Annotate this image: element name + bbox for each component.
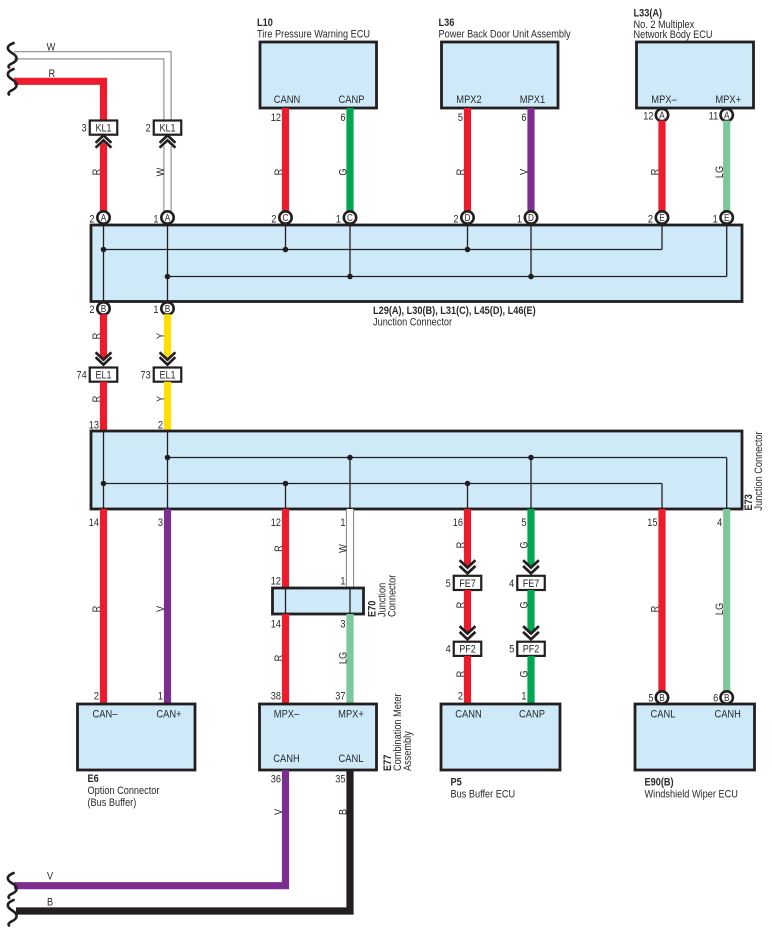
svg-text:6: 6 [521,112,526,124]
svg-text:W: W [47,42,56,54]
wire R E73-12 to E70 [282,509,289,588]
junction dot pin1 upper bus E73 [347,455,353,461]
wire R E73-15 to E90 CANL [658,509,665,692]
svg-text:(Bus Buffer): (Bus Buffer) [88,797,137,809]
connector KL1 pin 3 [82,121,118,135]
connector circle D pin 1 box1 top [525,211,537,223]
junction dot A1 lower bus [165,274,171,280]
svg-text:2: 2 [89,214,94,226]
svg-text:5: 5 [458,112,463,124]
wire break R [8,69,17,95]
svg-text:G: G [519,601,531,608]
svg-text:PF2: PF2 [523,644,540,656]
svg-text:A: A [724,110,730,121]
svg-text:5: 5 [648,693,653,705]
wire R CANN L10 to C2 [282,108,289,212]
svg-text:W: W [155,167,167,176]
svg-text:Y: Y [155,396,167,402]
svg-text:2: 2 [89,304,94,316]
wire LG E73-4 to E90 CANH [723,509,730,692]
connector EL1 pin 73 [141,368,182,382]
svg-text:Windshield Wiper ECU: Windshield Wiper ECU [645,789,738,801]
svg-text:36: 36 [271,774,281,786]
svg-text:E6: E6 [88,773,100,785]
junction dot pin5 upper bus E73 [528,455,534,461]
svg-text:1: 1 [517,214,522,226]
svg-text:MPX–: MPX– [274,709,300,721]
wire G CANP L10 to C1 [346,108,353,212]
svg-text:1: 1 [713,214,718,226]
svg-text:4: 4 [717,517,722,529]
ECU E90(B) Windshield Wiper ECU [635,704,755,770]
svg-text:Junction Connector: Junction Connector [753,431,765,511]
svg-text:R: R [650,606,662,613]
svg-text:L10: L10 [257,17,273,29]
connector chevron FE7 right [523,560,539,573]
connector chevron KL1 right [160,135,176,147]
white wire col A1 below KL1 [164,146,171,212]
connector circle A pin 12 L33 [656,109,668,121]
svg-text:2: 2 [94,691,99,703]
svg-text:CANP: CANP [339,94,365,106]
svg-text:R: R [455,169,467,176]
junction dot pin12 lower bus E73 [283,481,289,487]
connector circle C pin 2 box1 top [279,211,291,223]
svg-text:Tire Pressure Warning ECU: Tire Pressure Warning ECU [257,29,370,41]
svg-text:5: 5 [509,644,514,656]
svg-text:A: A [101,212,107,223]
internal lines E70 [286,588,351,614]
connector PF2 pin 5 [509,642,545,656]
wire R PF2 to P5 CANN [464,656,471,704]
svg-text:LG: LG [714,603,726,615]
connector FE7 pin 5 [446,576,482,590]
svg-text:1: 1 [158,691,163,703]
junction dot C1 lower bus [347,274,353,280]
svg-text:C: C [283,212,289,223]
svg-text:Assembly: Assembly [402,730,414,771]
svg-text:73: 73 [141,370,151,382]
svg-text:PF2: PF2 [459,644,476,656]
wire R B2 to EL1 [100,314,107,360]
svg-text:MPX2: MPX2 [456,94,482,106]
connector circle E pin 1 box1 top [721,211,733,223]
svg-text:2: 2 [458,691,463,703]
wire break V [8,873,17,898]
svg-text:Power Back Door Unit Assembly: Power Back Door Unit Assembly [439,29,572,41]
internal bus lines box1 [104,225,727,302]
svg-text:14: 14 [89,517,99,529]
svg-text:FE7: FE7 [523,578,540,590]
connector circle E pin 2 box1 top [656,211,668,223]
junction dot pin14 lower bus E73 [101,481,107,487]
junction dot C2 upper bus [283,247,289,253]
svg-text:R: R [91,169,103,176]
svg-text:MPX–: MPX– [651,94,677,106]
connector PF2 pin 4 [446,642,482,656]
connector circle A pin 11 L33 [721,109,733,121]
svg-text:R: R [455,542,467,549]
wire R col A2 below KL1 [100,142,107,212]
svg-text:C: C [347,212,353,223]
connector circle B pin 5 E90 [656,691,668,703]
wire R MPX2 L36 to D2 [464,108,471,212]
svg-text:A: A [165,212,171,223]
svg-text:Junction Connector: Junction Connector [373,317,453,329]
wire Y EL1 to E73 pin 2 [164,382,171,431]
svg-text:Network Body ECU: Network Body ECU [634,29,713,41]
svg-text:2: 2 [453,214,458,226]
wire G FE7 to PF2 right [527,590,534,634]
junction dot D1 lower bus [528,274,534,280]
connector chevron PF2 left [460,626,476,639]
svg-text:R: R [91,396,103,403]
svg-text:2: 2 [648,214,653,226]
svg-text:A: A [659,110,665,121]
svg-text:G: G [519,670,531,677]
svg-text:6: 6 [713,693,718,705]
wire R MPX- L33 to E2 [658,121,665,212]
svg-text:5: 5 [521,517,526,529]
svg-text:EL1: EL1 [159,370,175,382]
wire R feed from left (red) [14,81,104,120]
svg-text:CANH: CANH [714,709,740,721]
svg-text:35: 35 [335,774,345,786]
svg-text:1: 1 [336,214,341,226]
svg-text:B: B [659,692,664,703]
internal bus lines E73 [104,431,727,509]
wire G PF2 to P5 CANP [527,656,534,704]
svg-text:1: 1 [340,576,345,588]
wire break B [8,900,17,926]
svg-text:15: 15 [647,517,657,529]
white wire E73-1 to E70 [346,509,353,588]
svg-text:R: R [455,671,467,678]
wire V E73-3 to E6 CAN+ [164,509,171,704]
junction connector E70 [273,588,364,614]
svg-text:LG: LG [338,652,350,664]
svg-text:CANL: CANL [651,709,676,721]
svg-text:R: R [455,602,467,609]
svg-text:38: 38 [271,691,281,703]
svg-text:MPX+: MPX+ [715,94,741,106]
connector chevron FE7 left [460,560,476,573]
connector circle A pin 2 box1 top [97,211,109,223]
wire R E73-16 to FE7 [464,509,471,568]
svg-text:1: 1 [153,304,158,316]
ECU L36 Power Back Door Unit Assembly [442,42,559,108]
wire LG MPX+ L33 to E1 [723,121,730,212]
svg-text:B: B [338,809,350,815]
svg-text:CANH: CANH [273,753,299,765]
svg-text:12: 12 [271,517,281,529]
svg-text:EL1: EL1 [95,370,111,382]
svg-text:L36: L36 [439,17,455,29]
svg-text:L29(A), L30(B), L31(C), L45(D): L29(A), L30(B), L31(C), L45(D), L46(E) [373,305,536,317]
svg-text:G: G [338,168,350,175]
wire R FE7 to PF2 left [464,590,471,634]
junction dot pin16 lower bus E73 [465,481,471,487]
svg-text:12: 12 [643,111,653,123]
svg-text:MPX+: MPX+ [338,709,364,721]
svg-text:E: E [724,212,729,223]
svg-text:16: 16 [453,517,463,529]
junction dot A2 upper bus [101,247,107,253]
svg-text:V: V [47,871,53,883]
wire LG E70-3 to E77 MPX+ [346,614,353,704]
wire R E73-14 to E6 CAN- [100,509,107,704]
connector circle B pin 2 box1 bottom [97,302,109,314]
svg-text:12: 12 [271,112,281,124]
svg-text:1: 1 [153,214,158,226]
svg-text:CAN–: CAN– [93,709,118,721]
svg-text:D: D [528,212,534,223]
svg-text:CANP: CANP [519,709,545,721]
svg-text:CAN+: CAN+ [156,709,181,721]
svg-text:KL1: KL1 [95,123,111,135]
svg-text:R: R [650,169,662,176]
svg-text:74: 74 [77,370,87,382]
svg-text:CANN: CANN [455,709,481,721]
svg-text:G: G [519,541,531,548]
connector circle C pin 1 box1 top [344,211,356,223]
svg-text:1: 1 [521,691,526,703]
svg-text:R: R [273,655,285,662]
svg-text:R: R [91,606,103,613]
svg-text:3: 3 [82,123,87,135]
wire W feed from left (white) [14,52,171,121]
connector KL1 pin 2 [146,121,182,135]
svg-text:V: V [273,809,285,815]
svg-text:FE7: FE7 [459,578,476,590]
svg-text:R: R [91,333,103,340]
ECU L10 Tire Pressure Warning ECU [260,42,377,108]
svg-text:B: B [101,303,106,314]
svg-text:B: B [724,692,729,703]
svg-text:Bus Buffer ECU: Bus Buffer ECU [451,789,516,801]
svg-text:2: 2 [271,214,276,226]
svg-text:6: 6 [340,112,345,124]
connector circle D pin 2 box1 top [461,211,473,223]
svg-text:11: 11 [709,111,719,123]
ECU E6 Option Connector (Bus Buffer) [78,704,196,770]
svg-text:3: 3 [158,517,163,529]
svg-text:1: 1 [340,517,345,529]
svg-text:14: 14 [271,619,281,631]
connector circle B pin 1 box1 bottom [161,302,173,314]
connector EL1 pin 74 [77,368,118,382]
wire R EL1 to E73 pin 13 [100,382,107,431]
connector chevron EL1 left [96,352,112,364]
wire G E73-5 to FE7 [527,509,534,568]
svg-text:B: B [165,303,170,314]
svg-text:W: W [338,544,350,553]
svg-text:4: 4 [446,644,451,656]
wire B E77-35 to left edge [16,770,350,911]
svg-text:12: 12 [271,576,281,588]
svg-text:Connector: Connector [387,574,399,617]
svg-text:V: V [155,606,167,612]
svg-text:3: 3 [340,619,345,631]
junction dot D2 upper bus [465,247,471,253]
connector chevron EL1 right [160,352,176,364]
svg-text:37: 37 [335,691,345,703]
connector circle A pin 1 box1 top [161,211,173,223]
svg-text:2: 2 [146,123,151,135]
junction connector L29(A) L30(B) L31(C) L45(D) L46(E) [91,225,742,302]
svg-text:LG: LG [714,166,726,178]
ECU E77 Combination Meter Assembly [260,704,377,770]
svg-text:CANL: CANL [339,753,364,765]
svg-text:MPX1: MPX1 [520,94,546,106]
svg-text:KL1: KL1 [159,123,175,135]
svg-text:E: E [659,212,664,223]
wire V E77-36 to left edge [14,770,286,886]
wire break W [8,43,17,68]
svg-text:E90(B): E90(B) [645,777,674,789]
svg-text:P5: P5 [451,777,463,789]
svg-text:Y: Y [155,333,167,339]
wire R E70-14 to E77 MPX- [282,614,289,704]
ECU P5 Bus Buffer ECU [441,704,560,770]
wire Y B1 to EL1 [164,314,171,360]
svg-text:B: B [47,897,53,909]
junction connector E73 [91,431,742,509]
ECU L33(A) No.2 Multiplex Network Body ECU [637,42,754,108]
svg-text:V: V [519,169,531,175]
svg-text:4: 4 [509,578,514,590]
svg-text:D: D [465,212,471,223]
wire V MPX1 L36 to D1 [527,108,534,212]
svg-text:R: R [273,545,285,552]
connector FE7 pin 4 [509,576,545,590]
svg-text:CANN: CANN [274,94,300,106]
svg-text:5: 5 [446,578,451,590]
connector chevron KL1 left [96,135,112,147]
svg-text:R: R [273,169,285,176]
connector circle B pin 6 E90 [721,691,733,703]
junction dot pin3 upper bus E73 [165,455,171,461]
svg-text:L33(A): L33(A) [634,8,663,20]
svg-text:Option Connector: Option Connector [88,785,160,797]
connector chevron PF2 right [523,626,539,639]
svg-text:R: R [48,68,55,80]
